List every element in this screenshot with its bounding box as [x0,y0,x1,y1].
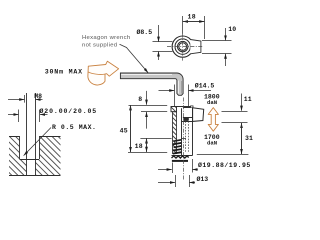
latch arm nose [193,108,204,122]
wrench shaft highlight [121,74,172,76]
circle ring 2 [175,39,190,54]
dim Ø8.5 extension lines [153,41,173,43]
latch arm base [183,108,193,118]
spring seat line [181,138,186,140]
dim Ø19.88 ext lines [172,163,174,174]
svg-text:18: 18 [135,143,143,150]
svg-text:30Nm MAX: 30Nm MAX [45,69,83,76]
extension line D body bottom [128,152,167,154]
svg-text:Ø20.00/20.05: Ø20.00/20.05 [40,107,98,115]
dim 31 line [241,123,243,154]
dim 10 arrows [225,28,227,41]
dim 10 extension lines [202,40,232,42]
panel bottom edge [9,175,61,177]
svg-text:11: 11 [244,96,252,103]
spring coil 5 [173,152,182,153]
wall hatched [173,112,177,154]
bottom plate [172,160,188,162]
dim 18 line (body) [146,138,148,152]
wrench leg highlight [178,81,180,94]
svg-text:R 0.5 MAX.: R 0.5 MAX. [52,124,97,131]
through slot [27,159,35,175]
svg-text:45: 45 [120,127,128,134]
svg-text:not supplied: not supplied [82,42,117,48]
dim Ø13 ext lines [175,175,177,187]
counterbore recess [20,135,39,159]
dim 11 arrow [241,94,243,111]
svg-text:31: 31 [245,135,253,142]
extension line C spring top [140,138,171,140]
stud right line [35,93,37,175]
svg-text:18: 18 [188,14,196,21]
dim Ø8.5 arrows [158,25,160,42]
spring coil 3 [174,146,182,147]
dim Ø14.5 line and arrows [159,90,175,92]
hex wrench body [120,73,183,95]
note R 0.5 MAX leader [24,128,51,156]
recess bottom edge [20,159,40,161]
dim Ø20 arrows [8,114,19,116]
dim Ø19.88 arrows [158,169,172,171]
serrated washer [172,156,189,158]
dim 18 (top) extension lines [182,16,184,34]
rotation arrow (orange) [88,61,119,85]
vertical centerline top view [182,34,184,61]
circle ring 3 (hex socket boss) [178,41,188,51]
right extension line 3 [197,154,249,156]
circle inner [179,43,187,51]
svg-text:M8: M8 [34,93,42,100]
dim M8 tick [24,95,26,103]
dim 8 arrows [146,91,148,105]
leader from note to wrench [120,44,149,73]
cap top edge [171,106,192,108]
latch arm lip [191,106,193,108]
recess right edge [39,136,41,159]
dim Ø13 arrows [158,182,175,184]
latch body circle outer [172,36,193,57]
panel block hatched [9,136,61,175]
cap hatched [171,107,177,112]
dim 45 line [130,105,132,152]
body inner block [172,107,193,156]
hidden thread lines [185,113,187,154]
dim Ø20 ticks [18,110,20,123]
svg-text:Ø14.5: Ø14.5 [195,82,215,90]
extension line B cap bottom [141,111,167,113]
double arrow (orange) [208,108,218,132]
svg-text:daN: daN [207,99,217,106]
recess left edge [19,136,21,159]
svg-text:Ø13: Ø13 [197,175,209,183]
stud left line [26,93,28,175]
right extension line 1 [222,111,248,113]
spring coil 1 [174,140,182,141]
dim Ø14.5 extension lines [174,85,176,107]
panel top edge [9,136,61,138]
right extension line 2 [222,122,248,124]
spring coil 4 [173,149,182,150]
arm mount dark section [183,118,188,121]
dim M8 arrows [8,99,24,101]
svg-text:8: 8 [138,96,142,103]
dim 18 (top) dimension line [183,21,205,23]
svg-text:10: 10 [228,26,236,33]
horizontal centerline top view [167,46,203,48]
spring coil 2 [173,143,182,144]
svg-text:Hexagon wrench: Hexagon wrench [82,35,130,41]
svg-text:Ø19.88/19.95: Ø19.88/19.95 [198,161,251,169]
centerline assembly [183,98,185,181]
svg-text:daN: daN [207,140,217,147]
cone (latch arm end view) [190,40,201,54]
svg-text:Ø8.5: Ø8.5 [137,28,153,36]
extension line A top of body [129,105,168,107]
